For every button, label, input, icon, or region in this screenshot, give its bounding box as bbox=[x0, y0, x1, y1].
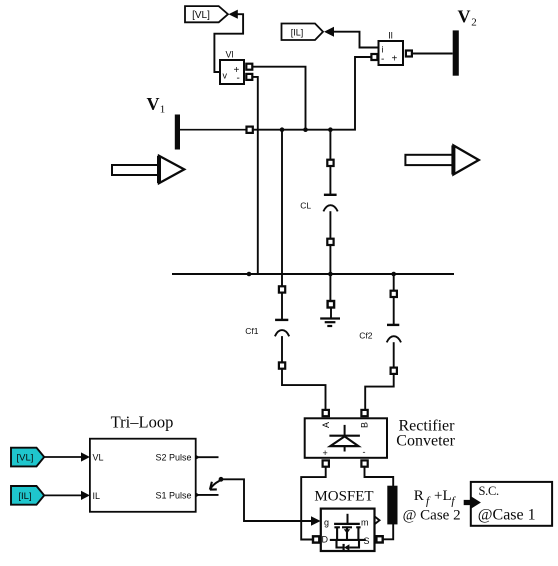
svg-text:-: - bbox=[381, 54, 384, 65]
svg-text:Conveter: Conveter bbox=[396, 433, 455, 450]
wire [VL] to Tri-Loop VL input bbox=[44, 452, 90, 461]
svg-text:S.C.: S.C. bbox=[479, 484, 500, 498]
wire Il output to [IL] tag with arrowhead bbox=[324, 27, 379, 48]
port square rectifier - bottom bbox=[361, 460, 367, 466]
svg-text:+L: +L bbox=[434, 488, 452, 504]
svg-text:S: S bbox=[364, 536, 370, 546]
svg-text:S1 Pulse: S1 Pulse bbox=[155, 490, 191, 500]
svg-text:-: - bbox=[363, 447, 366, 457]
top bus wire bbox=[253, 57, 372, 130]
bottom bus wire bbox=[172, 273, 454, 275]
svg-text:V: V bbox=[147, 94, 160, 114]
goto tag [VL] bbox=[185, 6, 228, 22]
wire gate signal to MOSFET g bbox=[222, 479, 321, 526]
port square rectifier B top bbox=[361, 410, 367, 416]
svg-text:CL: CL bbox=[300, 201, 311, 211]
from tag [VL] cyan bbox=[11, 448, 44, 467]
svg-text:A: A bbox=[321, 422, 331, 428]
bus bar V1 bbox=[175, 115, 180, 150]
svg-text:Tri–Loop: Tri–Loop bbox=[111, 412, 174, 431]
svg-text:[IL]: [IL] bbox=[18, 491, 31, 502]
svg-text:Vl: Vl bbox=[225, 50, 233, 60]
Tri-Loop block bbox=[90, 439, 196, 512]
junction node on top bus bbox=[328, 127, 333, 132]
svg-text:-: - bbox=[237, 73, 240, 84]
svg-text:Il: Il bbox=[388, 31, 393, 41]
wire rectifier - to Rf bar bbox=[365, 467, 394, 487]
MOSFET m output chevron bbox=[375, 517, 380, 524]
hollow arrow left bbox=[112, 156, 184, 183]
svg-text:[IL]: [IL] bbox=[291, 27, 304, 37]
curved annotation arrow bbox=[210, 481, 220, 490]
wire Vl - down to bottom bus bbox=[253, 77, 258, 274]
svg-text:[VL]: [VL] bbox=[17, 453, 34, 464]
svg-text:@Case 1: @Case 1 bbox=[478, 506, 536, 523]
from tag [IL] cyan bbox=[11, 486, 44, 505]
label Rf + Lf bbox=[414, 488, 457, 507]
wire S1 Pulse stub bbox=[196, 492, 219, 497]
junction node on top bus bbox=[280, 127, 285, 132]
port square rectifier + bottom bbox=[323, 460, 329, 466]
svg-text:[VL]: [VL] bbox=[192, 10, 210, 21]
svg-text:Cf1: Cf1 bbox=[245, 326, 258, 336]
MOSFET block bbox=[321, 509, 375, 551]
svg-text:B: B bbox=[359, 422, 369, 428]
junction node bottom bus right bbox=[391, 272, 396, 277]
junction node on top bus bbox=[303, 127, 308, 132]
svg-text:2: 2 bbox=[471, 17, 477, 29]
capacitor CL bbox=[323, 130, 337, 274]
ground symbol bbox=[320, 274, 340, 326]
bold arrow to S.C. box bbox=[464, 497, 481, 509]
svg-text:+: + bbox=[323, 448, 328, 458]
node dot gate wire start bbox=[219, 477, 224, 482]
svg-text:VL: VL bbox=[93, 453, 104, 463]
diode symbol inside rectifier bbox=[329, 425, 360, 452]
rectifier converter block bbox=[305, 418, 387, 458]
MOSFET transistor icon bbox=[330, 514, 366, 551]
wire V1 to port bbox=[180, 129, 246, 131]
goto tag [IL] bbox=[282, 24, 324, 41]
port square Il + bbox=[406, 51, 412, 57]
voltage measurement block Vl bbox=[220, 50, 244, 85]
port square Vl + bbox=[246, 64, 252, 70]
label V2 bbox=[458, 6, 477, 28]
wire Vl output to [VL] tag with arrowhead bbox=[214, 10, 243, 72]
bus bar V2 bbox=[453, 30, 459, 75]
wire Rf bar to MOSFET S bbox=[383, 524, 393, 539]
svg-text:1: 1 bbox=[160, 104, 166, 116]
junction node bottom bus mid bbox=[328, 272, 333, 277]
junction node bottom bus left bbox=[247, 272, 252, 277]
port square Il - bbox=[371, 54, 377, 60]
svg-text:Cf2: Cf2 bbox=[359, 331, 373, 341]
S.C. case box bbox=[471, 482, 552, 526]
svg-text:V: V bbox=[458, 6, 471, 26]
label Rectifier Conveter bbox=[396, 418, 455, 450]
wire [IL] to Tri-Loop IL input bbox=[44, 491, 90, 500]
wire Vl + to top bus bbox=[253, 67, 306, 130]
port square Vl - bbox=[246, 74, 252, 80]
label V1 bbox=[147, 94, 166, 116]
port square MOSFET D bbox=[313, 536, 319, 542]
svg-text:R: R bbox=[414, 488, 424, 504]
svg-text:@ Case 2: @ Case 2 bbox=[403, 508, 461, 524]
port square on V1 wire bbox=[247, 127, 253, 133]
wire S2 Pulse stub bbox=[196, 455, 219, 460]
capacitor Cf2 bbox=[365, 274, 401, 410]
hollow arrow right bbox=[405, 145, 478, 174]
svg-text:v: v bbox=[223, 71, 228, 81]
svg-text:IL: IL bbox=[93, 491, 101, 501]
wire rectifier + to MOSFET D bbox=[301, 467, 326, 540]
series impedance Rf Lf black bar bbox=[387, 486, 397, 525]
wire Il + to V2 bus bbox=[412, 53, 453, 55]
svg-text:g: g bbox=[324, 518, 329, 528]
port square rectifier A top bbox=[323, 410, 329, 416]
svg-text:+: + bbox=[392, 54, 398, 65]
svg-text:D: D bbox=[322, 535, 329, 545]
capacitor Cf1 bbox=[275, 130, 326, 410]
svg-text:S2 Pulse: S2 Pulse bbox=[155, 453, 191, 463]
port square MOSFET S bbox=[376, 536, 382, 542]
svg-text:MOSFET: MOSFET bbox=[314, 489, 373, 505]
current measurement block Il bbox=[379, 31, 404, 66]
svg-text:m: m bbox=[361, 518, 369, 528]
